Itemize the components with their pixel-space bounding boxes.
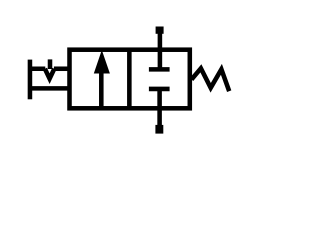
valve body frame (2-position valve): [70, 50, 190, 109]
port terminal square, bottom: [155, 125, 163, 134]
detent pin: [48, 59, 53, 69]
return spring: [192, 68, 230, 91]
flow path arrow shaft (position a, open): [99, 73, 104, 108]
position divider line: [127, 50, 132, 109]
detent operator: upper rail, left segment: [28, 66, 45, 71]
blocked port symbol, top (position b): [149, 67, 170, 72]
blocked port symbol, bottom (position b): [149, 87, 170, 92]
detent operator: end bar: [28, 60, 33, 100]
port terminal square, top: [156, 27, 164, 34]
port line, top (to T-bar): [158, 31, 163, 69]
flow path arrowhead: [94, 50, 110, 74]
port line, bottom (from T-bar): [157, 89, 162, 129]
detent operator: lower rail: [28, 86, 70, 91]
detent notch (V): [45, 69, 54, 79]
detent operator: upper rail, right segment: [54, 66, 70, 71]
